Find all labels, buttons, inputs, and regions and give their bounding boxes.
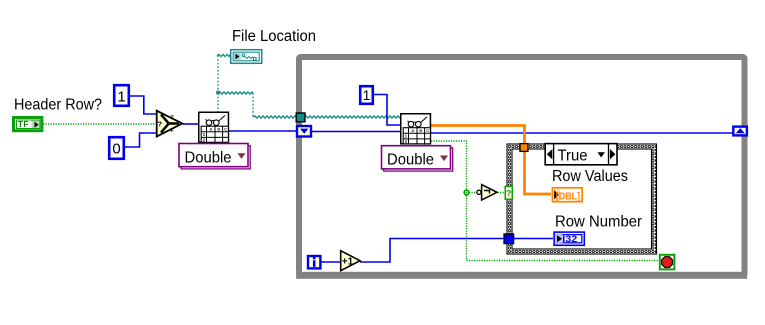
svg-text:Row Number: Row Number [555,214,643,231]
svg-text:TF: TF [18,120,29,129]
svg-text:Double: Double [387,152,434,169]
svg-text:?: ? [506,188,511,198]
svg-text:?: ? [158,119,163,128]
svg-text:[DBL]: [DBL] [556,190,580,202]
svg-text:0: 0 [112,141,120,158]
svg-text:Row Values: Row Values [552,168,628,185]
svg-text:Header Row?: Header Row? [14,97,102,114]
svg-text:Double: Double [185,149,232,166]
svg-text:1: 1 [363,87,371,103]
svg-text:1: 1 [117,89,125,106]
svg-text:+1: +1 [342,257,354,268]
svg-text:True: True [558,148,588,165]
svg-text:File Location: File Location [232,28,316,45]
svg-text:I32: I32 [562,234,577,245]
